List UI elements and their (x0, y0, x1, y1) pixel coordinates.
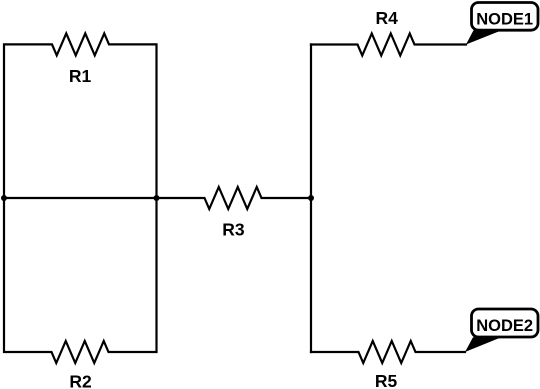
svg-text:R5: R5 (375, 371, 398, 389)
svg-text:R4: R4 (376, 8, 399, 28)
svg-text:NODE2: NODE2 (476, 317, 533, 335)
svg-text:NODE1: NODE1 (476, 10, 533, 28)
svg-text:R3: R3 (222, 219, 245, 239)
svg-text:R1: R1 (69, 66, 92, 86)
svg-text:R2: R2 (69, 372, 92, 389)
